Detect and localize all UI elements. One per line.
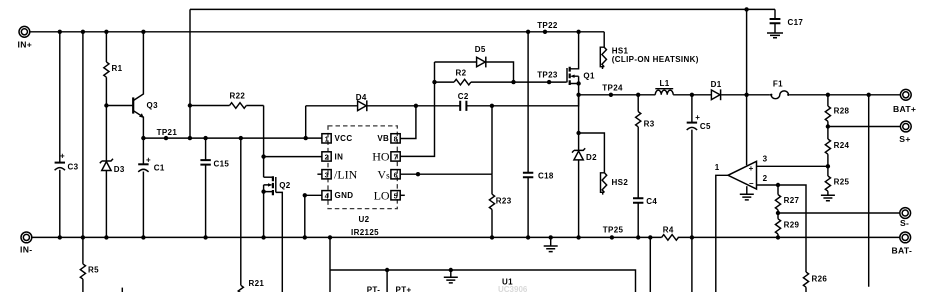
svg-text:S-: S-	[900, 218, 909, 228]
svg-text:R24: R24	[834, 141, 850, 150]
svg-text:(CLIP-ON HEATSINK): (CLIP-ON HEATSINK)	[612, 55, 699, 64]
junction dots BAT+ rail	[690, 93, 694, 97]
junction dots TP24 rail	[576, 93, 580, 97]
svg-text:L1: L1	[660, 79, 670, 88]
svg-text:D3: D3	[114, 165, 125, 174]
svg-text:D4: D4	[356, 93, 367, 102]
svg-text:PT-: PT-	[367, 285, 381, 292]
wire R21 vertical	[240, 138, 242, 285]
resistor R1	[104, 32, 123, 106]
svg-text:HS2: HS2	[612, 178, 629, 187]
U2 pin 7 HO	[372, 149, 400, 163]
svg-text:+: +	[695, 113, 700, 122]
wire pin4 GND net	[305, 195, 322, 237]
transistor Q3	[106, 32, 158, 138]
terminal IN-	[20, 232, 32, 254]
resistor R5	[80, 237, 99, 292]
junction dot Q3 base	[104, 103, 108, 107]
U2 pin 8 VB	[377, 134, 400, 144]
svg-text:R25: R25	[834, 178, 850, 187]
junction dot pin3 R24 R25	[826, 164, 830, 168]
resistor R28	[825, 95, 849, 127]
svg-text:1: 1	[325, 135, 329, 144]
resistor R22	[190, 92, 264, 109]
svg-text:2: 2	[763, 174, 768, 183]
svg-text:Q3: Q3	[147, 101, 159, 110]
resistor R25	[825, 166, 849, 195]
junction dot pin2 R27	[776, 183, 780, 187]
junction dot IN pin net	[261, 154, 265, 158]
terminal S-	[900, 208, 911, 228]
svg-text:R2: R2	[456, 69, 467, 78]
svg-text:3: 3	[325, 170, 329, 179]
svg-text:7: 7	[394, 153, 398, 162]
wire op-amp pin2 net	[757, 185, 807, 272]
svg-text:F1: F1	[773, 80, 783, 89]
svg-text:6: 6	[394, 170, 398, 179]
svg-text:R23: R23	[496, 197, 512, 206]
svg-text:D1: D1	[711, 80, 722, 89]
terminal BAT-	[892, 232, 913, 256]
wire top rail	[190, 8, 775, 10]
transistor Q2	[261, 176, 290, 292]
node TP23	[537, 70, 558, 84]
wire IN pin net	[264, 156, 322, 158]
zener diode D3	[100, 106, 125, 238]
wire Q2 source to IN- rail	[263, 192, 265, 238]
wire vertical x82.9 to R5	[82, 32, 84, 238]
ground below R25	[821, 195, 835, 201]
ground below op-amp	[740, 186, 754, 200]
IC U2 dashed body	[328, 126, 397, 209]
U2 pin 2 IN	[322, 152, 343, 162]
wire R22 right vertical to IN pin	[263, 106, 265, 178]
capacitor C1	[138, 138, 165, 237]
junction dots top rails	[58, 30, 62, 34]
fuse F1	[770, 80, 790, 99]
svg-text:+: +	[60, 152, 65, 161]
svg-text:/LIN: /LIN	[334, 167, 358, 181]
svg-text:R3: R3	[644, 119, 655, 128]
resistor R4	[662, 225, 679, 240]
svg-text:Q1: Q1	[583, 72, 595, 81]
inductor L1	[655, 79, 673, 95]
svg-text:R1: R1	[112, 64, 123, 73]
svg-text:IN: IN	[335, 152, 344, 161]
svg-text:VCC: VCC	[335, 134, 353, 143]
diode D4	[306, 93, 461, 111]
wire S+ net	[828, 126, 901, 128]
svg-text:C18: C18	[538, 172, 554, 181]
svg-text:IN+: IN+	[18, 39, 33, 49]
svg-text:8: 8	[394, 135, 398, 144]
ground at IN- rail	[544, 237, 558, 251]
svg-text:R22: R22	[230, 92, 246, 101]
junction dots IN- rail right	[690, 235, 694, 239]
svg-text:2: 2	[325, 153, 329, 162]
svg-text:TP21: TP21	[157, 128, 178, 137]
svg-text:IR2125: IR2125	[351, 228, 379, 237]
terminal IN+	[18, 26, 33, 49]
capacitor C5	[687, 95, 711, 292]
svg-text:C1: C1	[154, 164, 165, 173]
svg-text:C5: C5	[700, 122, 711, 131]
svg-text:TP25: TP25	[603, 226, 624, 235]
resistor R21	[238, 279, 264, 292]
svg-text:GND: GND	[335, 191, 354, 200]
svg-text:D2: D2	[586, 153, 597, 162]
svg-text:UC3906: UC3906	[498, 285, 528, 292]
svg-text:Vs: Vs	[377, 167, 390, 181]
junction dot S- R27 R29	[776, 211, 780, 215]
wire IN+ rail	[30, 31, 604, 33]
wire VB riser	[400, 106, 416, 139]
wire stub below rail x650	[649, 237, 651, 292]
svg-text:R21: R21	[249, 279, 265, 288]
svg-text:C2: C2	[458, 92, 469, 101]
svg-text:R27: R27	[784, 196, 800, 205]
junction dots R2 D5	[432, 80, 436, 84]
wire IN- rail	[32, 236, 900, 238]
svg-text:D5: D5	[475, 45, 486, 54]
U2 pin 4 GND	[322, 191, 353, 201]
zener diode D2	[572, 95, 597, 238]
wire TP24 rail	[579, 94, 770, 96]
svg-text:Q2: Q2	[279, 181, 291, 190]
U2 pin 3 LIN	[322, 167, 358, 181]
box U1	[330, 237, 636, 292]
resistor R26	[803, 272, 827, 292]
wire S- net	[778, 212, 900, 214]
svg-text:IN-: IN-	[20, 244, 32, 254]
wire HO riser	[400, 62, 434, 156]
terminal BAT+	[893, 89, 916, 114]
svg-text:BAT-: BAT-	[892, 246, 913, 256]
svg-text:C17: C17	[788, 18, 804, 27]
svg-text:TP22: TP22	[537, 21, 558, 30]
capacitor C3	[55, 32, 79, 238]
wire pin5 stub	[400, 194, 405, 196]
wire D4 anode vertical	[305, 106, 307, 138]
wire TP23 gate net	[514, 81, 567, 83]
wire Vs net	[400, 106, 492, 174]
resistor R29	[775, 213, 799, 237]
svg-text:R26: R26	[812, 275, 828, 284]
svg-text:S+: S+	[899, 134, 910, 144]
wire pin3 stub	[317, 173, 322, 175]
node TP21	[157, 128, 178, 140]
resistor R27	[775, 185, 799, 213]
resistor R24	[825, 127, 849, 167]
capacitor C15	[200, 138, 229, 237]
svg-text:R5: R5	[88, 265, 99, 274]
junction dots IN- rail mid	[303, 235, 307, 239]
wire supply riser x746.6	[746, 9, 748, 165]
resistor R3	[636, 95, 655, 198]
junction dots IN- rail left	[58, 235, 62, 239]
svg-text:4: 4	[325, 191, 329, 200]
resistor R23	[489, 174, 511, 237]
svg-text:LO: LO	[374, 188, 390, 202]
wire stub cut component bottom left	[121, 288, 123, 292]
U2 pin 6 Vs	[377, 167, 400, 181]
svg-text:TP24: TP24	[602, 84, 623, 93]
svg-text:HO: HO	[372, 149, 390, 163]
heatsink HS2	[579, 133, 629, 195]
svg-text:3: 3	[763, 155, 768, 164]
svg-text:U2: U2	[359, 215, 370, 224]
svg-text:5: 5	[394, 191, 398, 200]
svg-text:BAT+: BAT+	[893, 104, 916, 114]
wire op-amp pin3 net	[757, 165, 828, 167]
svg-text:−: −	[749, 179, 754, 188]
transistor Q1	[567, 32, 595, 95]
wire vertical x190	[189, 9, 191, 138]
svg-text:+: +	[146, 156, 151, 165]
diode D1	[711, 80, 722, 100]
node TP24	[602, 84, 623, 97]
svg-text:1: 1	[715, 163, 720, 172]
U2 pin 5 LO	[374, 188, 401, 202]
ground on U1 box	[444, 268, 458, 283]
terminal S+	[899, 121, 911, 144]
svg-text:R28: R28	[834, 106, 850, 115]
junction dots bootstrap net	[414, 104, 418, 108]
junction dot D2 HS2 branch	[576, 131, 580, 135]
wire op-amp output	[716, 175, 728, 292]
svg-text:+: +	[749, 164, 754, 173]
svg-text:PT+: PT+	[396, 285, 412, 292]
capacitor C18	[523, 32, 554, 238]
svg-text:C3: C3	[68, 162, 79, 171]
svg-text:VB: VB	[377, 134, 389, 143]
svg-text:HS1: HS1	[612, 46, 629, 55]
svg-text:C15: C15	[214, 159, 230, 168]
svg-text:C4: C4	[646, 197, 657, 206]
wire sense riser x868.7	[868, 95, 870, 287]
heatsink HS1	[600, 32, 698, 69]
resistor R2	[435, 69, 514, 85]
junction dot top rail	[744, 7, 748, 11]
junction dot S+ R24	[826, 124, 830, 128]
wire VCC rail TP21	[143, 137, 322, 139]
node TP22	[537, 21, 558, 34]
svg-text:R4: R4	[663, 225, 674, 234]
junction dots mid top rails	[526, 30, 530, 34]
diode D5	[435, 45, 514, 82]
node TP25	[603, 226, 624, 240]
capacitor C17	[767, 9, 803, 37]
wire BAT+ rail	[790, 94, 901, 96]
junction dots VCC rail	[141, 136, 145, 140]
junction dot Vs stub	[416, 172, 420, 176]
op-amp U3	[715, 155, 768, 189]
svg-text:R29: R29	[784, 220, 800, 229]
svg-text:TP23: TP23	[537, 70, 558, 79]
capacitor C4	[633, 197, 657, 237]
capacitor C2	[458, 92, 579, 111]
U2 pin 1 VCC	[322, 134, 353, 144]
